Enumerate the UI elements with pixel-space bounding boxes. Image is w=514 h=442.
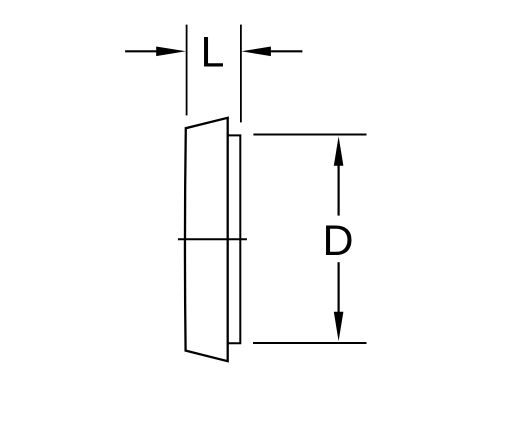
- centerline: [178, 238, 247, 240]
- dimension leader L right shaft: [268, 50, 302, 52]
- extension line D top: [253, 134, 366, 136]
- arrowhead D bottom: [334, 312, 344, 342]
- cap body outline: [185, 118, 228, 361]
- flange outline: [228, 135, 241, 343]
- dimension leader L left shaft: [125, 50, 162, 52]
- extension line L right: [240, 25, 242, 123]
- extension line L left: [186, 25, 188, 116]
- svg-text:D: D: [323, 217, 354, 265]
- svg-text:L: L: [201, 29, 225, 77]
- dimension line D upper shaft: [338, 164, 340, 216]
- arrowhead L right: [241, 47, 271, 57]
- dimension line D lower shaft: [338, 262, 340, 313]
- arrowhead L left: [156, 47, 186, 57]
- extension line D bottom: [253, 342, 367, 344]
- arrowhead D top: [334, 136, 344, 166]
